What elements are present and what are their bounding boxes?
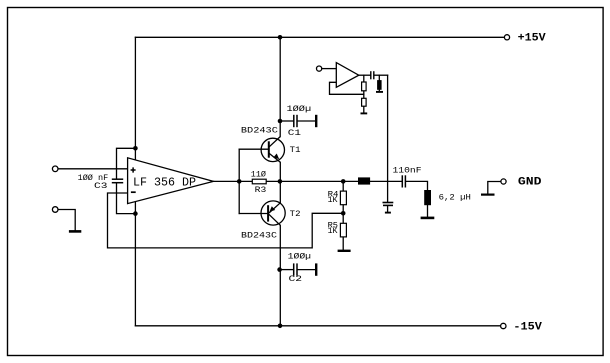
svg-text:11Ø: 11Ø xyxy=(251,171,266,180)
svg-text:1ØØµ: 1ØØµ xyxy=(288,253,312,262)
svg-text:1K: 1K xyxy=(328,196,338,205)
svg-text:1K: 1K xyxy=(328,227,338,236)
svg-text:T1: T1 xyxy=(290,146,301,155)
svg-text:T2: T2 xyxy=(290,210,301,219)
svg-text:110nF: 110nF xyxy=(393,166,422,175)
svg-text:C3: C3 xyxy=(94,182,108,191)
svg-text:C1: C1 xyxy=(288,129,301,138)
svg-text:GND: GND xyxy=(518,176,542,188)
svg-text:BD243C: BD243C xyxy=(241,127,278,136)
svg-text:R3: R3 xyxy=(255,186,267,195)
svg-text:1ØØµ: 1ØØµ xyxy=(287,105,312,114)
svg-text:6,2 µH: 6,2 µH xyxy=(439,194,471,203)
svg-text:-15V: -15V xyxy=(513,322,542,334)
svg-text:LF 356 DP: LF 356 DP xyxy=(133,176,196,189)
svg-text:C2: C2 xyxy=(289,275,303,284)
svg-text:+15V: +15V xyxy=(518,33,546,45)
svg-text:BD243C: BD243C xyxy=(241,232,277,241)
